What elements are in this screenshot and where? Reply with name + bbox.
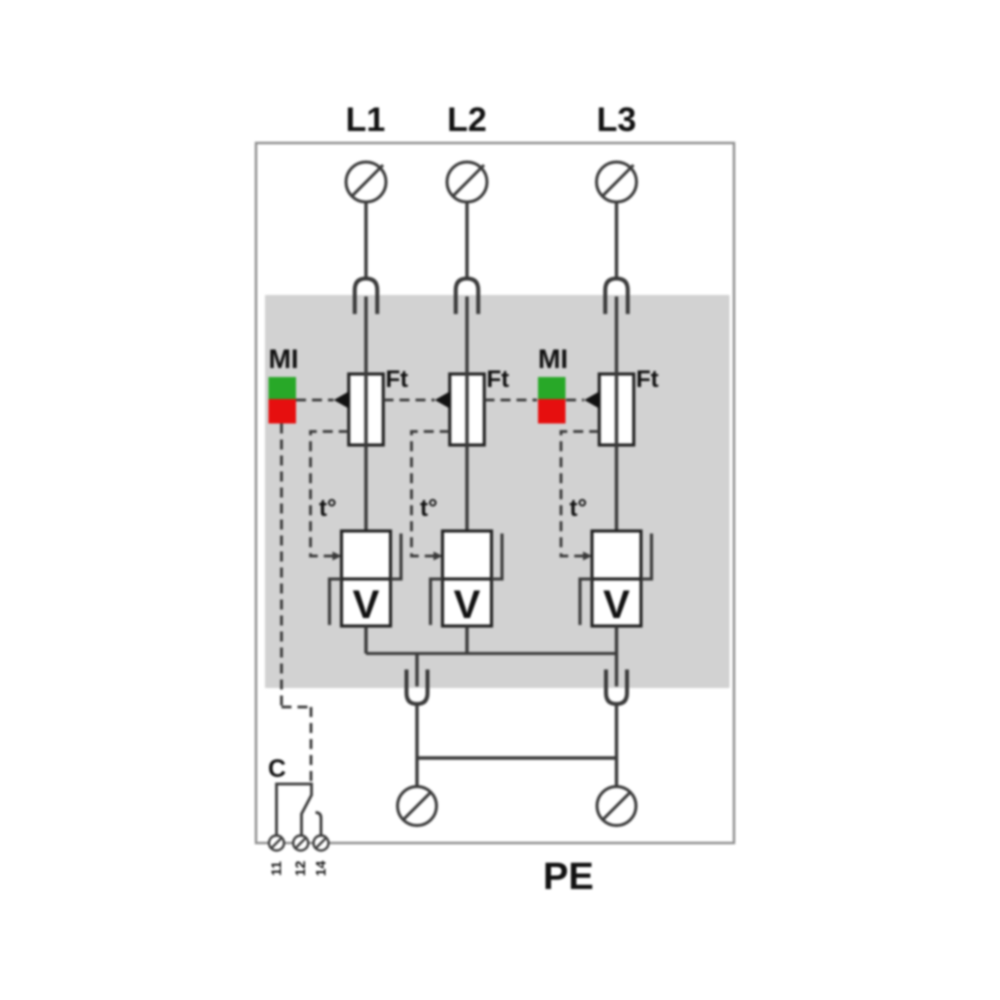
svg-text:MI: MI	[269, 344, 299, 374]
svg-text:t°: t°	[570, 495, 588, 522]
svg-text:V: V	[353, 583, 380, 627]
svg-text:L2: L2	[447, 101, 487, 139]
svg-text:t°: t°	[319, 495, 337, 522]
svg-text:t°: t°	[420, 495, 438, 522]
svg-text:V: V	[603, 583, 630, 627]
svg-text:Ft: Ft	[386, 366, 409, 393]
svg-text:L1: L1	[346, 101, 386, 139]
svg-text:L3: L3	[597, 101, 637, 139]
svg-text:Ft: Ft	[487, 366, 510, 393]
svg-text:PE: PE	[543, 856, 594, 898]
svg-text:MI: MI	[538, 344, 568, 374]
svg-text:V: V	[454, 583, 481, 627]
svg-text:11: 11	[268, 861, 284, 876]
svg-text:Ft: Ft	[636, 366, 659, 393]
svg-text:C: C	[268, 755, 286, 783]
svg-text:12: 12	[292, 861, 308, 877]
svg-text:14: 14	[313, 861, 329, 877]
